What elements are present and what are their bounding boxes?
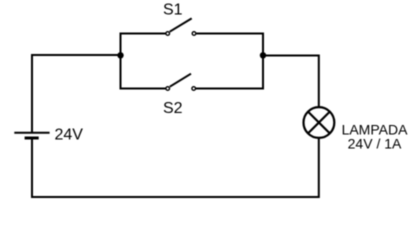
wire: top branch left segment to S1 — [120, 33, 166, 35]
switch S1 lever — [170, 18, 192, 31]
lamp LAMPADA circle — [304, 107, 335, 138]
wire: parallel-right vertical riser (junction to branches) — [262, 33, 264, 90]
wire: left vertical from battery - plate to bottom-left corner — [31, 138, 33, 198]
lamp X diagonal 2 — [308, 112, 330, 134]
svg-text:S1: S1 — [163, 2, 183, 19]
wire: right vertical from bottom corner up to lamp bottom — [318, 139, 320, 199]
switch S1 right terminal — [192, 32, 196, 36]
wire: right vertical from lamp top up to top-right corner — [318, 55, 320, 107]
lamp X diagonal 1 — [308, 112, 330, 134]
wire: top-left horizontal from battery branch to left junction — [31, 54, 121, 56]
switch S2 lever — [170, 74, 191, 87]
wire: top branch right segment from S1 — [196, 33, 264, 35]
wire: bottom branch right segment from S2 — [196, 88, 264, 90]
wire: parallel-left vertical riser (junction to top branch) — [120, 33, 122, 90]
battery B1 long plate (+) — [14, 132, 49, 134]
switch S2 right terminal — [192, 87, 196, 91]
wire: top-right horizontal from right junction to right corner — [262, 55, 320, 57]
svg-text:24V: 24V — [55, 127, 84, 144]
svg-text:24V / 1A: 24V / 1A — [348, 136, 402, 152]
wire: bottom horizontal — [31, 196, 320, 198]
junction node left — [117, 52, 123, 58]
switch S2 left terminal — [166, 87, 170, 91]
svg-text:S2: S2 — [163, 100, 183, 117]
wire: bottom branch left segment to S2 — [120, 88, 166, 90]
junction node right — [260, 52, 266, 58]
battery B1 short plate (-) — [25, 137, 39, 140]
switch S1 left terminal — [166, 32, 170, 36]
wire: left vertical from top corner down to battery + plate — [31, 54, 33, 133]
